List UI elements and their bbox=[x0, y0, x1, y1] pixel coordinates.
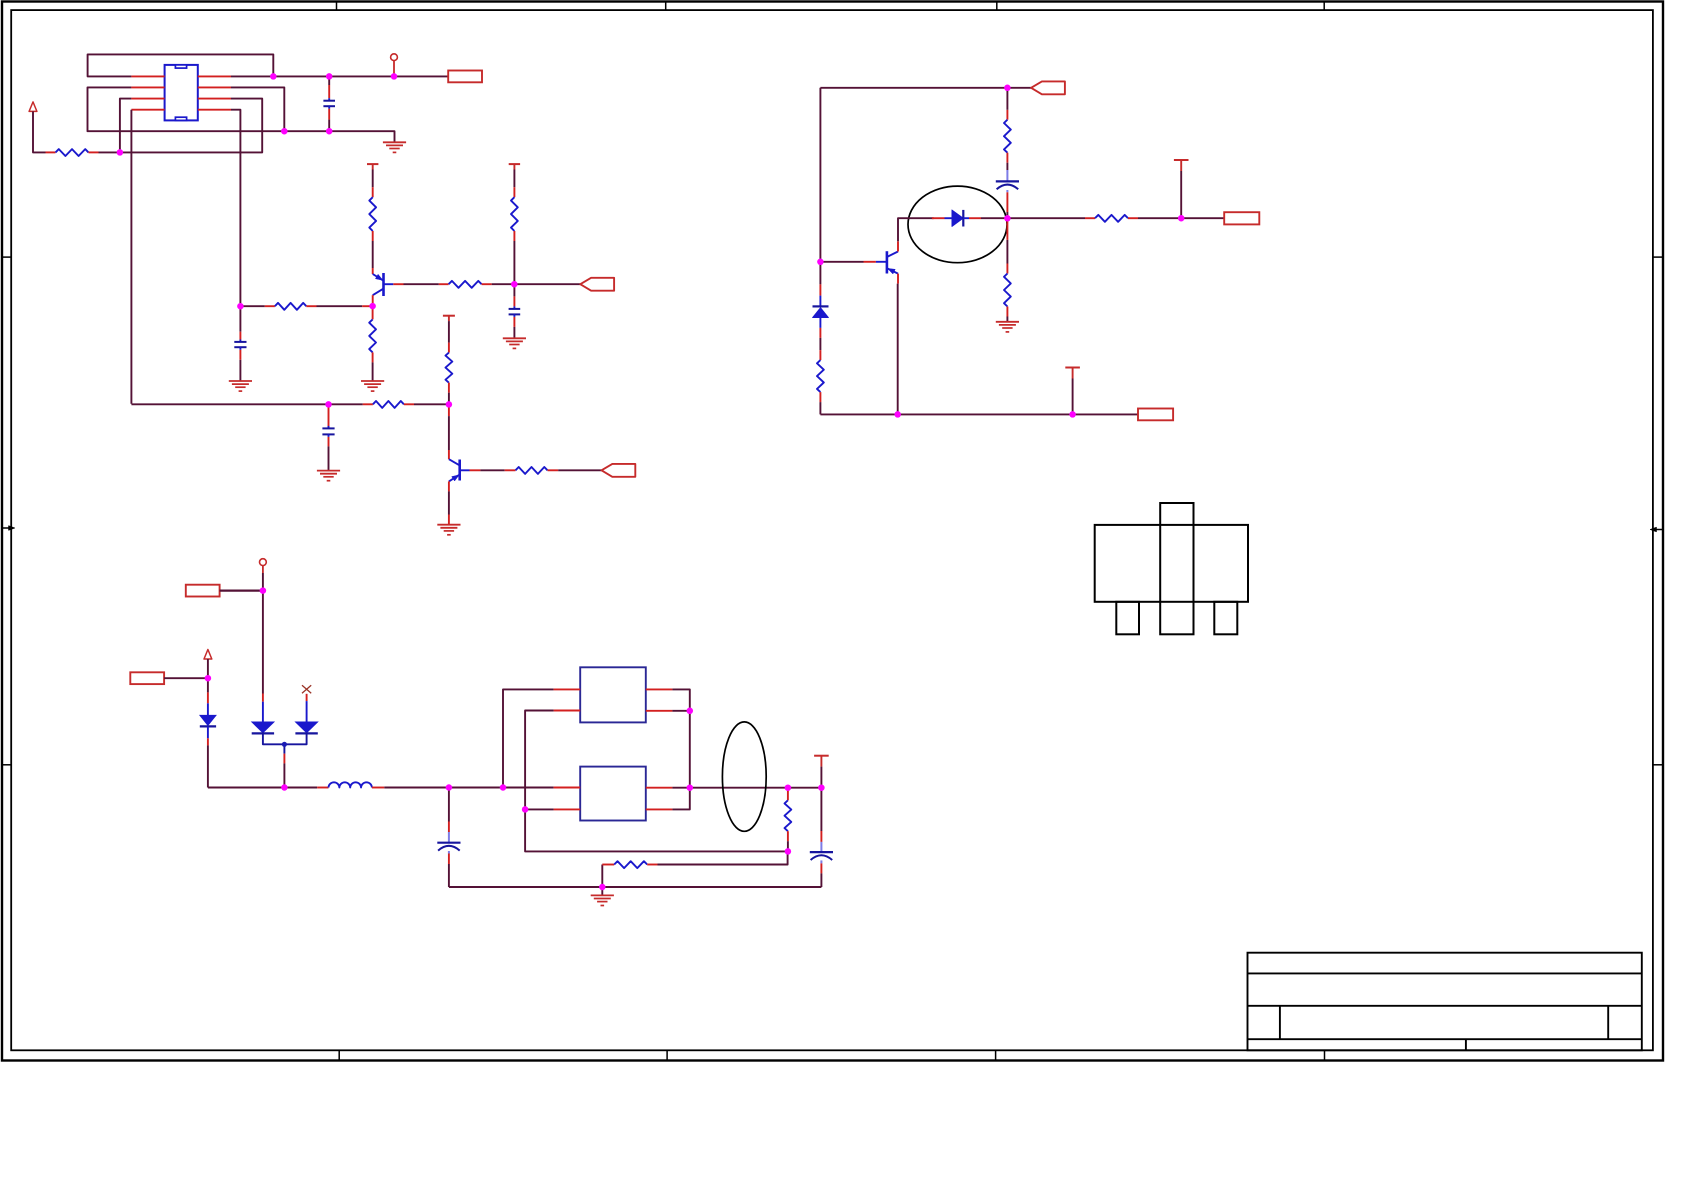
resistor R1 bbox=[46, 151, 56, 153]
wire bbox=[404, 283, 439, 285]
wire bbox=[672, 787, 689, 789]
wire bbox=[207, 659, 209, 678]
transformer winding T1a bbox=[580, 667, 646, 722]
junction bbox=[785, 784, 792, 791]
power T6 bar bbox=[1174, 159, 1189, 161]
junction bbox=[446, 401, 453, 408]
power T4 bar bbox=[509, 163, 520, 165]
node dot bbox=[117, 149, 124, 156]
ground bbox=[437, 524, 460, 526]
junction bbox=[1178, 215, 1185, 222]
border zone ticks bbox=[336, 2, 338, 11]
footprint U2 left pad bbox=[1116, 602, 1139, 635]
wire blue bus bbox=[263, 733, 307, 744]
wire bbox=[317, 305, 363, 307]
port P8 bbox=[130, 672, 164, 684]
wire bbox=[88, 87, 285, 131]
wire bbox=[88, 54, 274, 76]
junction bbox=[205, 675, 212, 682]
wire bbox=[384, 787, 553, 789]
capacitor C4 bbox=[328, 404, 330, 428]
wire bbox=[448, 491, 450, 514]
junction bbox=[369, 303, 376, 310]
wire bbox=[120, 99, 262, 153]
wire bbox=[513, 170, 515, 188]
wire bbox=[372, 362, 374, 381]
port P1 bbox=[448, 71, 482, 83]
junction bbox=[326, 128, 333, 135]
junction bbox=[391, 73, 398, 80]
wire bbox=[492, 283, 581, 285]
junction bbox=[785, 848, 792, 855]
wire bbox=[690, 787, 822, 789]
power T8 bar bbox=[814, 755, 829, 757]
resistor R15 bbox=[602, 864, 614, 866]
ellipse marker bbox=[908, 186, 1007, 263]
wire bbox=[981, 217, 1007, 219]
wire bbox=[33, 111, 46, 152]
junction bbox=[325, 401, 332, 408]
wire bbox=[819, 338, 821, 350]
wire bbox=[601, 865, 603, 888]
transistor Q1 bbox=[372, 268, 374, 274]
resistor R10 bbox=[1006, 110, 1008, 120]
wire2 bbox=[448, 515, 450, 525]
junction bbox=[1069, 411, 1076, 418]
resistor R3 bbox=[372, 306, 374, 319]
power T7 bar bbox=[1065, 367, 1080, 369]
wire bbox=[503, 689, 554, 787]
wire bbox=[1006, 88, 1008, 110]
port P7 bbox=[186, 585, 220, 597]
wire bbox=[120, 99, 131, 153]
diode D1 bbox=[207, 678, 209, 692]
port P4 bbox=[1031, 81, 1065, 94]
wire bbox=[658, 851, 788, 864]
ground bbox=[361, 380, 384, 382]
wire bbox=[273, 75, 448, 77]
wire bbox=[1180, 171, 1182, 218]
no-connect circle bbox=[391, 54, 398, 61]
no-connect circle bbox=[260, 559, 267, 566]
transistor Q3 bbox=[864, 261, 876, 263]
wire bbox=[372, 241, 374, 268]
transformer winding T1b bbox=[580, 767, 646, 821]
wire bbox=[448, 393, 450, 405]
capacitor C6 bbox=[448, 788, 450, 822]
resistor R2 bbox=[265, 305, 275, 307]
wire bbox=[283, 744, 285, 753]
junction bbox=[894, 411, 901, 418]
wire bbox=[207, 726, 209, 738]
wire bbox=[820, 767, 822, 788]
wire bbox=[220, 589, 263, 591]
wire bbox=[1138, 217, 1224, 219]
footprint U2 body bbox=[1095, 525, 1248, 602]
wire bbox=[240, 305, 264, 307]
wire bbox=[1072, 379, 1074, 415]
ground bbox=[996, 321, 1019, 323]
inductor L1 bbox=[317, 787, 328, 789]
wire bbox=[820, 87, 1031, 89]
junction bbox=[817, 259, 824, 266]
ground bbox=[503, 337, 526, 339]
junction bbox=[281, 784, 288, 791]
wire bbox=[262, 591, 264, 694]
junction bbox=[687, 784, 694, 791]
border center arrow right bbox=[1655, 529, 1663, 531]
wire bbox=[525, 809, 788, 851]
junction bbox=[687, 708, 694, 715]
junction bbox=[522, 806, 529, 813]
ground bbox=[229, 380, 252, 382]
port P2 bbox=[580, 278, 614, 291]
crystal Y1 bbox=[165, 65, 198, 121]
wire bbox=[130, 110, 132, 404]
diode D5 bbox=[932, 217, 945, 219]
wire bbox=[284, 131, 394, 142]
wire bbox=[820, 413, 1138, 415]
wire bottom row bbox=[449, 886, 822, 888]
junction bbox=[1004, 215, 1011, 222]
border center arrow left bbox=[2, 527, 10, 529]
wire bbox=[787, 841, 789, 851]
resistor R7 bbox=[363, 403, 373, 405]
power arrow VCC2 bbox=[204, 650, 212, 660]
wire bbox=[525, 711, 554, 810]
ellipse marker 2 bbox=[722, 722, 766, 831]
wire bbox=[414, 403, 449, 405]
power T5 bar bbox=[443, 315, 455, 317]
diode D2 bbox=[262, 694, 264, 702]
ground bbox=[383, 141, 406, 143]
junction bbox=[599, 884, 606, 891]
wire bbox=[525, 808, 554, 810]
resistor R11 bbox=[819, 350, 821, 360]
resistor R8 bbox=[448, 343, 450, 353]
wire bbox=[372, 170, 374, 188]
wire bbox=[819, 402, 821, 414]
wire bbox=[1007, 217, 1085, 219]
wire main row bbox=[208, 787, 317, 789]
resistor R14v bbox=[787, 788, 789, 801]
wire bbox=[558, 469, 601, 471]
junction bbox=[446, 784, 453, 791]
junction bbox=[511, 281, 518, 288]
wire bbox=[1006, 163, 1008, 170]
junction bbox=[281, 128, 288, 135]
wire bbox=[448, 321, 450, 343]
wire bbox=[819, 88, 821, 285]
node dot bbox=[237, 303, 244, 310]
capacitor C1 bbox=[328, 76, 330, 85]
resistor R4 bbox=[372, 187, 374, 197]
wire bbox=[601, 887, 603, 895]
wire bbox=[99, 151, 120, 153]
wire bbox=[480, 469, 504, 471]
wire bbox=[1006, 317, 1008, 322]
transistor Q2 bbox=[448, 404, 450, 416]
junction blue bbox=[282, 742, 287, 747]
port P3 bbox=[602, 464, 636, 477]
junction bbox=[1004, 85, 1011, 92]
power T3 bar bbox=[367, 163, 378, 165]
wire bbox=[672, 710, 689, 712]
wire bbox=[513, 241, 515, 284]
title block bbox=[1248, 953, 1642, 1051]
diode D4 bbox=[819, 284, 821, 295]
junction bbox=[326, 73, 333, 80]
port P6 bbox=[1138, 409, 1173, 421]
junction bbox=[270, 73, 277, 80]
capacitor C7 bbox=[820, 788, 822, 831]
wire bbox=[164, 677, 208, 679]
resistor R12 bbox=[1085, 217, 1095, 219]
ground bbox=[591, 894, 614, 896]
resistor R5 bbox=[513, 187, 515, 197]
capacitor C3 bbox=[513, 284, 515, 296]
junction bbox=[818, 784, 825, 791]
junction bbox=[260, 587, 267, 594]
wire bbox=[898, 218, 934, 241]
port P5 bbox=[1224, 212, 1259, 224]
wire bbox=[672, 689, 689, 809]
capacitor C2 bbox=[239, 306, 241, 332]
wire bbox=[820, 261, 863, 263]
footprint U2 right pad bbox=[1214, 602, 1237, 635]
resistor R13v bbox=[1006, 218, 1008, 240]
wire bbox=[897, 284, 899, 415]
wire bbox=[131, 403, 362, 405]
footprint U2 center tab bbox=[1160, 503, 1193, 634]
wire bbox=[231, 110, 240, 307]
ground bbox=[317, 470, 340, 472]
no-ERC cross bbox=[302, 685, 311, 693]
junction bbox=[500, 784, 507, 791]
capacitor C5 bbox=[1006, 170, 1008, 181]
resistor R9 bbox=[505, 469, 516, 471]
wire bbox=[262, 573, 264, 591]
resistor R6 bbox=[439, 283, 449, 285]
power port VCC1 arrow bbox=[29, 102, 37, 112]
wire bbox=[1006, 212, 1008, 218]
diode D3 bbox=[306, 694, 308, 701]
